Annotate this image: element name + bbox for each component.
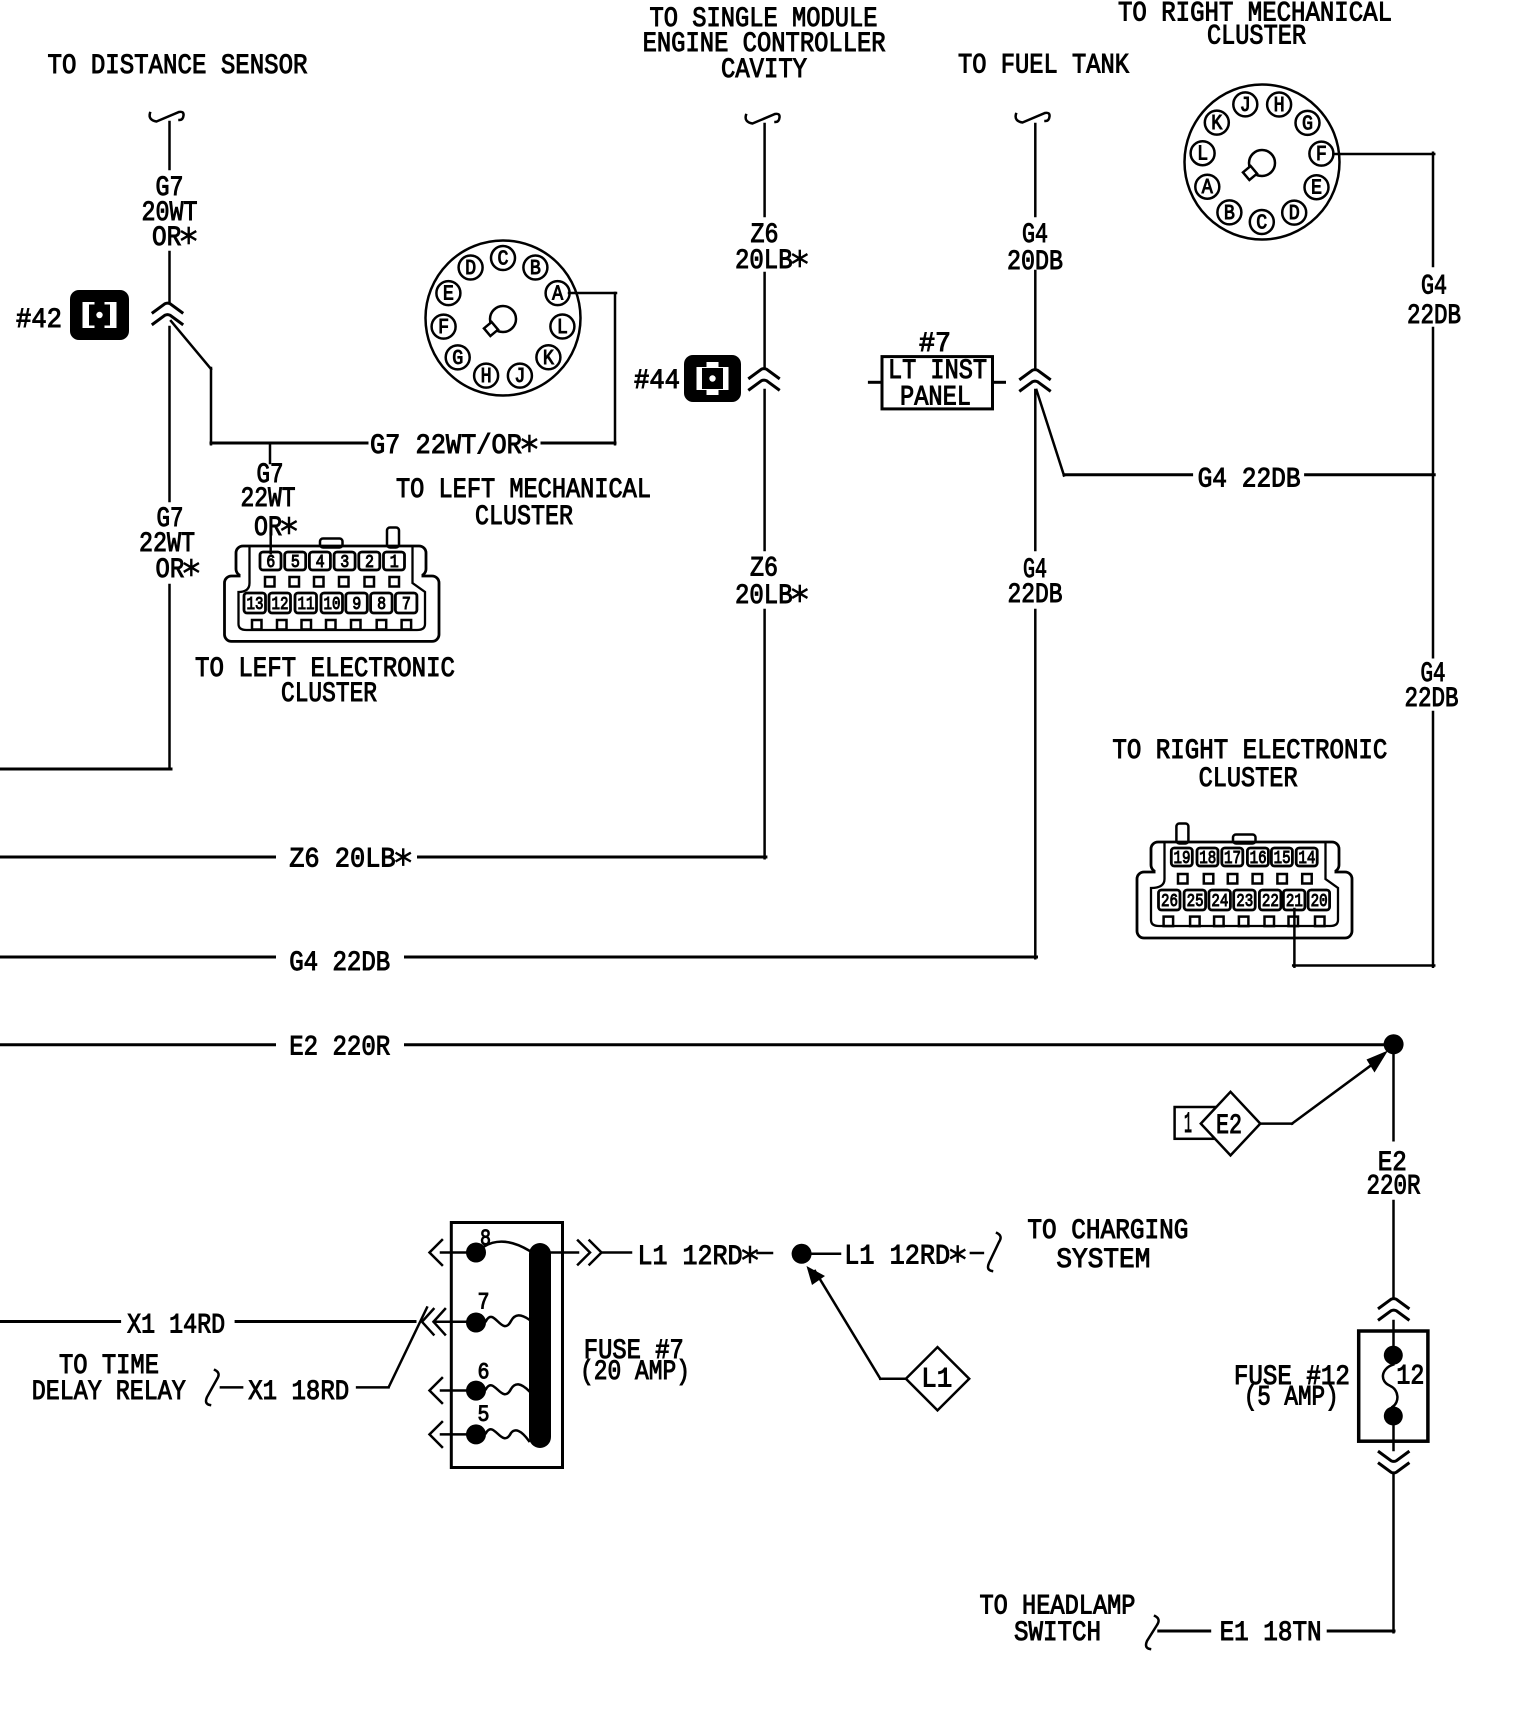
- svg-text:18: 18: [1199, 849, 1216, 869]
- svg-text:24: 24: [1211, 892, 1228, 912]
- svg-text:L: L: [1197, 144, 1208, 167]
- svg-text:22: 22: [1262, 892, 1279, 912]
- svg-text:G: G: [1302, 113, 1313, 136]
- svg-text:19: 19: [1174, 849, 1191, 869]
- svg-text:J: J: [1240, 95, 1251, 118]
- svg-text:SWITCH: SWITCH: [1014, 1618, 1101, 1649]
- svg-text:11: 11: [298, 595, 315, 615]
- svg-text:H: H: [1274, 95, 1285, 118]
- svg-text:B: B: [530, 258, 541, 281]
- svg-text:F: F: [1316, 144, 1327, 167]
- svg-text:13: 13: [247, 595, 264, 615]
- svg-text:L1 12RD: L1 12RD: [844, 1242, 965, 1273]
- svg-text:#42: #42: [16, 305, 62, 336]
- svg-text:OR: OR: [156, 555, 199, 586]
- svg-text:7: 7: [402, 595, 411, 615]
- svg-text:6: 6: [266, 553, 275, 573]
- svg-text:X1 18RD: X1 18RD: [248, 1377, 349, 1408]
- svg-text:CLUSTER: CLUSTER: [1199, 764, 1298, 795]
- svg-text:1: 1: [390, 553, 399, 573]
- svg-text:TO DISTANCE SENSOR: TO DISTANCE SENSOR: [48, 51, 308, 82]
- svg-text:OR: OR: [254, 513, 296, 544]
- svg-text:X1 14RD: X1 14RD: [127, 1310, 225, 1341]
- svg-text:21: 21: [1286, 892, 1303, 912]
- svg-text:C: C: [1256, 213, 1267, 236]
- svg-text:20: 20: [1311, 892, 1328, 912]
- svg-text:TO FUEL TANK: TO FUEL TANK: [958, 51, 1129, 82]
- svg-text:3: 3: [340, 553, 349, 573]
- svg-text:220R: 220R: [1367, 1172, 1421, 1203]
- svg-text:10: 10: [324, 595, 341, 615]
- svg-text:D: D: [465, 258, 476, 281]
- svg-text:(5 AMP): (5 AMP): [1244, 1382, 1339, 1413]
- svg-text:DELAY RELAY: DELAY RELAY: [32, 1377, 186, 1408]
- svg-text:20LB: 20LB: [735, 246, 807, 277]
- svg-text:15: 15: [1274, 849, 1291, 869]
- svg-text:17: 17: [1224, 849, 1241, 869]
- svg-text:22DB: 22DB: [1405, 684, 1459, 715]
- svg-text:B: B: [1224, 203, 1235, 226]
- svg-text:SYSTEM: SYSTEM: [1056, 1245, 1150, 1276]
- svg-text:E1 18TN: E1 18TN: [1220, 1618, 1322, 1649]
- svg-text:K: K: [1211, 113, 1222, 136]
- svg-text:7: 7: [478, 1290, 490, 1316]
- svg-text:L: L: [557, 317, 568, 340]
- svg-text:L1 12RD: L1 12RD: [638, 1242, 758, 1273]
- svg-text:G4 22DB: G4 22DB: [1198, 464, 1301, 495]
- svg-text:23: 23: [1236, 892, 1253, 912]
- svg-text:14: 14: [1298, 849, 1315, 869]
- svg-text:E: E: [1311, 178, 1322, 201]
- svg-text:J: J: [514, 366, 525, 389]
- svg-text:CLUSTER: CLUSTER: [281, 679, 377, 710]
- svg-text:12: 12: [272, 595, 289, 615]
- svg-text:E2 220R: E2 220R: [289, 1033, 390, 1064]
- svg-text:2: 2: [365, 553, 374, 573]
- svg-text:1: 1: [1184, 1108, 1192, 1142]
- svg-text:16: 16: [1250, 849, 1267, 869]
- svg-text:C: C: [498, 249, 509, 272]
- svg-text:OR: OR: [152, 223, 196, 254]
- svg-text:K: K: [543, 348, 554, 371]
- svg-text:5: 5: [478, 1402, 490, 1428]
- svg-text:22DB: 22DB: [1008, 580, 1063, 611]
- svg-text:H: H: [481, 366, 492, 389]
- svg-text:5: 5: [291, 553, 300, 573]
- svg-text:D: D: [1289, 203, 1300, 226]
- svg-text:26: 26: [1161, 892, 1178, 912]
- svg-text:CAVITY: CAVITY: [721, 55, 807, 86]
- svg-text:TO RIGHT ELECTRONIC: TO RIGHT ELECTRONIC: [1112, 736, 1387, 767]
- svg-text:E2: E2: [1216, 1111, 1242, 1142]
- svg-text:TO CHARGING: TO CHARGING: [1027, 1216, 1188, 1247]
- svg-text:9: 9: [352, 595, 361, 615]
- svg-text:G4 22DB: G4 22DB: [289, 948, 390, 979]
- svg-text:20LB: 20LB: [735, 581, 807, 612]
- svg-text:CLUSTER: CLUSTER: [1207, 21, 1306, 52]
- svg-text:G: G: [452, 348, 463, 371]
- svg-text:E: E: [443, 284, 454, 307]
- svg-text:A: A: [552, 284, 563, 307]
- svg-text:L1: L1: [921, 1365, 952, 1396]
- svg-text:F: F: [438, 317, 449, 340]
- svg-text:Z6 20LB: Z6 20LB: [289, 845, 411, 876]
- svg-text:A: A: [1202, 177, 1213, 200]
- svg-text:CLUSTER: CLUSTER: [475, 502, 573, 533]
- svg-text:22WT: 22WT: [241, 484, 296, 515]
- svg-text:25: 25: [1187, 892, 1204, 912]
- svg-text:8: 8: [377, 595, 386, 615]
- svg-text:4: 4: [316, 553, 325, 573]
- svg-text:(20 AMP): (20 AMP): [580, 1357, 690, 1388]
- svg-text:12: 12: [1396, 1362, 1424, 1393]
- svg-text:#44: #44: [634, 366, 680, 397]
- svg-text:G7 22WT/OR: G7 22WT/OR: [370, 431, 537, 462]
- svg-text:Z6: Z6: [750, 554, 778, 585]
- svg-text:G4: G4: [1421, 272, 1447, 303]
